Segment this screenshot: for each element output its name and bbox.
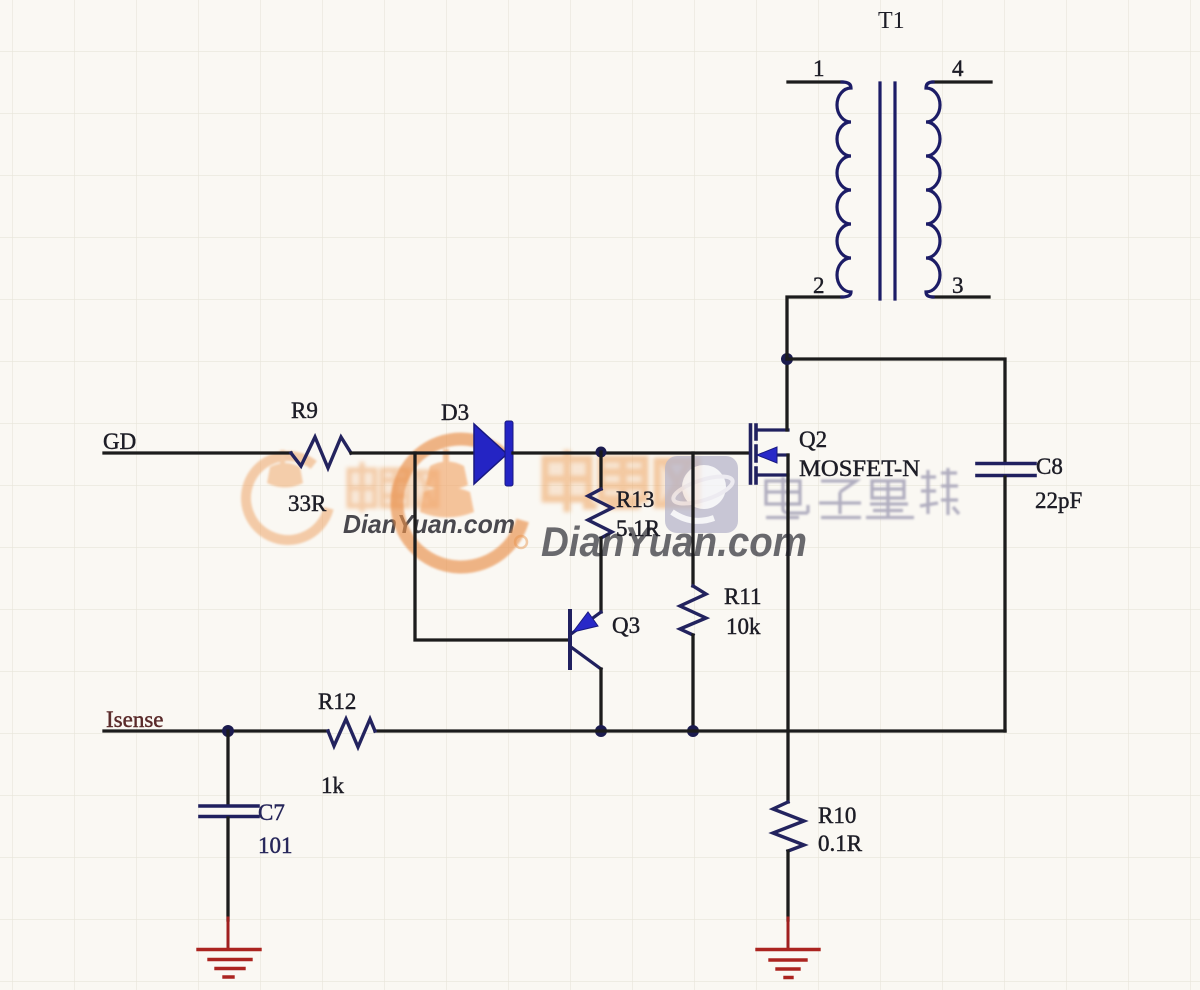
svg-text:GD: GD bbox=[103, 429, 136, 454]
wire C7 top lead bbox=[226, 731, 229, 803]
svg-text:R12: R12 bbox=[318, 689, 356, 714]
transistor Q3 emitter arrow bbox=[573, 612, 598, 632]
resistor R9 bbox=[291, 437, 351, 468]
watermark plug icon 1 bbox=[280, 450, 285, 467]
wire feedback from node to Q3 base bbox=[415, 453, 568, 640]
watermark chars dianzixingqiu grey outline bbox=[766, 468, 959, 518]
resistor R10 bbox=[773, 802, 804, 851]
svg-text:Q3: Q3 bbox=[612, 613, 640, 638]
node dot C7 on Isense bbox=[222, 725, 234, 737]
watermark chars dianyuanwang large bbox=[545, 450, 697, 512]
svg-text:T1: T1 bbox=[878, 8, 905, 34]
svg-text:3: 3 bbox=[952, 273, 964, 298]
WATERMARKS-UNDER bbox=[234, 421, 959, 585]
wire C8 bottom to Isense bbox=[1003, 477, 1006, 731]
wire GD net horizontal bbox=[104, 451, 291, 454]
svg-text:C7: C7 bbox=[258, 800, 285, 825]
svg-text:MOSFET-N: MOSFET-N bbox=[799, 456, 920, 481]
transformer T1 pin4 wire bbox=[933, 80, 991, 83]
wire to R13 bbox=[599, 452, 602, 489]
watermark planet logo tile bbox=[665, 456, 738, 533]
watermark reg mark small bbox=[515, 536, 527, 548]
svg-text:C8: C8 bbox=[1036, 454, 1063, 479]
svg-text:2: 2 bbox=[813, 273, 825, 298]
transformer T1 pin1 wire bbox=[788, 80, 842, 83]
svg-text:Q2: Q2 bbox=[799, 427, 827, 452]
svg-text:33R: 33R bbox=[288, 491, 327, 516]
wire to R11 bbox=[691, 453, 694, 586]
svg-text:D3: D3 bbox=[441, 400, 469, 425]
WATERMARKS-OVER bbox=[541, 518, 807, 565]
node dot R11 on Isense bbox=[687, 725, 699, 737]
capacitor C8 plates bbox=[977, 464, 1035, 476]
wire R9 to D3 anode bbox=[351, 451, 474, 454]
transformer T1 right winding bbox=[926, 82, 940, 297]
svg-text:R13: R13 bbox=[616, 487, 654, 512]
transformer T1 pin2 wire bbox=[787, 297, 842, 359]
svg-text:0.1R: 0.1R bbox=[818, 831, 863, 856]
MOSFET Q2 gate bar bbox=[749, 425, 753, 483]
wire drain vertical bbox=[785, 359, 788, 430]
wire R10 ground lead red bbox=[787, 918, 790, 948]
ground symbol at C7 bbox=[198, 950, 260, 978]
wire D3 cathode to Q2 gate bbox=[513, 451, 748, 454]
svg-text:4: 4 bbox=[952, 56, 964, 81]
svg-text:DianYuan.com: DianYuan.com bbox=[541, 518, 807, 565]
watermark chars dianyuanwang small bbox=[349, 462, 437, 512]
wire R10 bottom lead bbox=[786, 851, 789, 920]
watermark plug icon 2 bbox=[443, 449, 449, 466]
svg-text:1: 1 bbox=[813, 56, 825, 81]
transistor Q3 collector diagonal bbox=[571, 647, 601, 669]
transformer T1 pin3 wire bbox=[933, 295, 989, 298]
transformer T1 core bbox=[880, 83, 895, 299]
svg-text:10k: 10k bbox=[726, 614, 761, 639]
svg-text:R9: R9 bbox=[291, 398, 318, 423]
node junction dot at R13 top bbox=[596, 447, 607, 458]
wire Q3 collector to Isense bbox=[599, 669, 602, 731]
transformer T1 left winding bbox=[837, 82, 851, 297]
resistor R13 bbox=[588, 489, 612, 538]
ground symbol at R10 bbox=[757, 950, 819, 978]
transistor Q3 emitter diagonal bbox=[571, 612, 601, 634]
wire Isense net horizontal bbox=[104, 729, 1005, 732]
resistor R11 bbox=[680, 586, 706, 635]
node dot drain junction bbox=[781, 353, 793, 365]
svg-text:R11: R11 bbox=[724, 584, 762, 609]
MOSFET Q2 body arrow bbox=[757, 447, 777, 463]
node dot Q3 collector on Isense bbox=[595, 725, 607, 737]
svg-text:22pF: 22pF bbox=[1035, 488, 1082, 513]
svg-text:R10: R10 bbox=[818, 803, 856, 828]
transistor Q3 base bar bbox=[568, 611, 572, 668]
wire R11 bottom to Isense net bbox=[691, 635, 694, 731]
watermark ring large (DianYuan logo 2) bbox=[379, 421, 543, 585]
watermark ring small (DianYuan logo 1) bbox=[234, 444, 342, 552]
MOSFET Q2 source stub bbox=[757, 473, 788, 476]
wire C7 ground lead red bbox=[227, 918, 230, 948]
MOSFET Q2 channel segments bbox=[754, 425, 758, 483]
wire top to C8 bbox=[787, 359, 1005, 462]
MOSFET Q2 drain stub bbox=[757, 428, 788, 431]
svg-text:101: 101 bbox=[258, 833, 293, 858]
wire source vertical down to R10 bbox=[786, 455, 789, 802]
capacitor C7 plates bbox=[200, 806, 258, 817]
svg-text:1k: 1k bbox=[321, 773, 345, 798]
svg-text:Isense: Isense bbox=[106, 707, 163, 732]
diode D3 bbox=[474, 424, 507, 484]
resistor R12 bbox=[328, 719, 375, 747]
wire C7 bottom lead bbox=[226, 818, 229, 920]
wire R13 bottom to Q3 emitter bbox=[599, 538, 602, 612]
MOSFET Q2 body stub bbox=[776, 453, 788, 456]
